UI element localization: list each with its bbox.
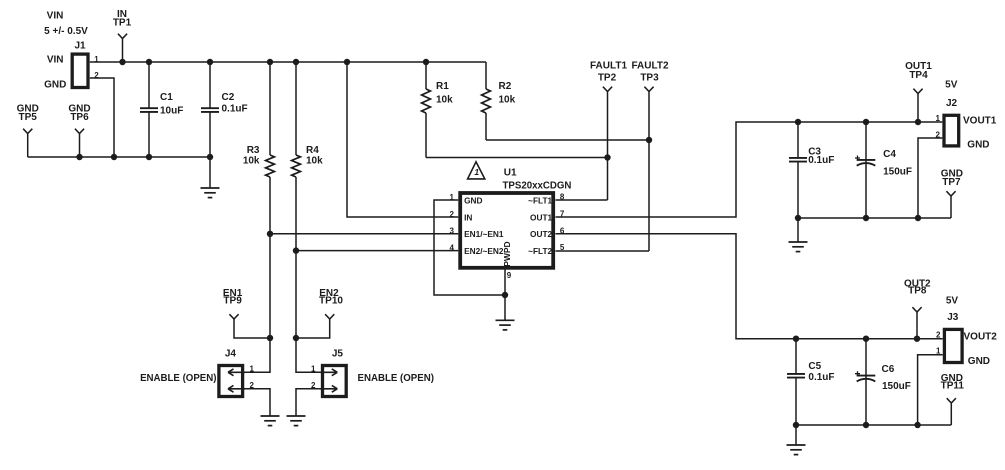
svg-text:R2: R2	[499, 81, 512, 92]
svg-text:10k: 10k	[436, 95, 453, 106]
svg-text:C6: C6	[882, 364, 895, 375]
svg-text:150uF: 150uF	[883, 167, 912, 178]
capacitor C3 0.1uF	[789, 122, 834, 221]
svg-text:ENABLE (OPEN): ENABLE (OPEN)	[358, 373, 434, 384]
capacitor C2 0.1uF	[201, 62, 248, 160]
svg-text:VOUT1: VOUT1	[963, 116, 997, 127]
wire VIN top rail	[90, 59, 486, 65]
svg-text:10k: 10k	[499, 95, 516, 106]
svg-text:FAULT2: FAULT2	[631, 61, 668, 72]
connector J2	[936, 79, 997, 150]
wire U1 pin3 to R3 net	[270, 233, 458, 235]
svg-text:150uF: 150uF	[882, 381, 911, 392]
wire R1 to TP2 net	[426, 154, 611, 160]
testpoint TP7 (GND)	[941, 168, 963, 218]
svg-text:5: 5	[560, 243, 565, 252]
svg-text:J3: J3	[947, 312, 959, 323]
testpoint TP4 (OUT1)	[905, 61, 932, 122]
svg-text:1: 1	[936, 114, 941, 123]
ground below J5	[287, 416, 306, 426]
wire GND rail (input)	[28, 156, 210, 158]
connector J5	[311, 348, 346, 396]
svg-text:10k: 10k	[306, 155, 323, 166]
ground below U1 pin9	[496, 320, 515, 330]
svg-text:VIN: VIN	[47, 11, 64, 22]
svg-text:OUT2: OUT2	[530, 229, 553, 239]
connector J4	[219, 348, 255, 396]
svg-text:IN: IN	[464, 212, 472, 222]
svg-text:TP5: TP5	[19, 112, 38, 123]
svg-text:8: 8	[560, 193, 565, 202]
svg-text:0.1uF: 0.1uF	[808, 372, 834, 383]
svg-text:0.1uF: 0.1uF	[808, 155, 834, 166]
ground below C5	[787, 425, 806, 455]
wire J3 pin1 to gnd rail	[914, 355, 942, 428]
svg-text:TP7: TP7	[942, 177, 961, 188]
svg-text:5 +/- 0.5V: 5 +/- 0.5V	[44, 26, 88, 37]
svg-text:TP1: TP1	[113, 17, 132, 28]
testpoint TP8 (OUT2)	[904, 279, 931, 339]
svg-text:~FLT2: ~FLT2	[528, 246, 552, 256]
wire J5 pin1	[296, 371, 321, 373]
testpoint TP11 (GND)	[941, 373, 965, 425]
resistor R3 10k	[243, 62, 275, 372]
testpoint TP3 (FAULT2)	[631, 61, 668, 251]
capacitor C1 10uF	[140, 62, 183, 160]
svg-text:GND: GND	[44, 79, 66, 90]
svg-text:ENABLE (OPEN): ENABLE (OPEN)	[140, 373, 216, 384]
testpoint TP6 (GND)	[68, 103, 90, 160]
svg-text:EN2/~EN2: EN2/~EN2	[464, 246, 504, 256]
svg-text:OUT1: OUT1	[530, 212, 553, 222]
svg-text:R3: R3	[247, 145, 260, 156]
label ENABLE(OPEN) right	[358, 373, 434, 384]
wire U1 pin7 OUT1 net	[556, 119, 943, 217]
svg-text:FAULT1: FAULT1	[590, 61, 627, 72]
wire R2 to TP3 net	[486, 137, 652, 143]
wire OUT2 gnd rail	[796, 424, 951, 426]
svg-text:2: 2	[936, 330, 941, 339]
wire J4 pin2 to gnd	[244, 389, 270, 416]
wire TP2 to U1 pin8	[556, 199, 608, 201]
svg-text:PWPD: PWPD	[502, 241, 512, 267]
svg-text:J5: J5	[332, 348, 344, 359]
svg-text:C5: C5	[808, 361, 821, 372]
wire TP3 to U1 pin5	[556, 250, 650, 252]
svg-text:9: 9	[507, 271, 512, 280]
resistor R1 10k	[422, 62, 454, 158]
svg-text:C1: C1	[160, 92, 173, 103]
wire U1 pin4 to R4 net	[296, 250, 458, 252]
note triangle 1	[468, 162, 485, 179]
svg-text:U1: U1	[504, 168, 517, 179]
svg-text:J1: J1	[74, 41, 86, 52]
label ENABLE(OPEN) left	[140, 373, 216, 384]
wire U1 pin1 to pin9 gnd	[434, 200, 505, 295]
wire U1 pin6 OUT2 net	[556, 234, 943, 342]
svg-text:VOUT2: VOUT2	[964, 332, 998, 343]
svg-text:GND: GND	[464, 195, 482, 205]
capacitor C4 150uF	[855, 122, 912, 221]
wire J2 pin2 to gnd rail	[915, 138, 943, 221]
connector J1	[44, 41, 99, 91]
wire IN net to U1 pin2	[347, 62, 458, 217]
svg-text:5V: 5V	[946, 295, 959, 306]
node VIN label	[44, 11, 88, 38]
svg-text:TP4: TP4	[909, 70, 928, 81]
svg-text:TP6: TP6	[70, 112, 89, 123]
svg-text:J4: J4	[225, 348, 237, 359]
ground below C2	[201, 157, 220, 198]
connector J3	[936, 295, 997, 367]
svg-text:TP11: TP11	[941, 381, 965, 392]
svg-text:GND: GND	[967, 140, 989, 151]
ground below J4	[261, 416, 280, 426]
resistor R2 10k	[482, 62, 516, 140]
svg-text:R1: R1	[436, 81, 449, 92]
op-amp U1 TPS20xxCDGN	[449, 168, 571, 281]
svg-text:5V: 5V	[945, 79, 958, 90]
testpoint TP10 (EN2)	[296, 288, 343, 338]
wire J4 pin1	[244, 371, 270, 373]
testpoint TP1 (IN)	[113, 9, 132, 65]
svg-text:~FLT1: ~FLT1	[528, 195, 552, 205]
svg-text:C4: C4	[883, 149, 896, 160]
svg-text:C2: C2	[222, 92, 235, 103]
svg-text:TP3: TP3	[640, 73, 659, 84]
svg-text:TPS20xxCDGN: TPS20xxCDGN	[503, 181, 572, 192]
svg-text:VIN: VIN	[47, 54, 64, 65]
svg-text:R4: R4	[306, 145, 319, 156]
wire J5 pin2 to gnd	[296, 389, 321, 416]
wire OUT1 gnd rail	[797, 217, 951, 219]
svg-text:0.1uF: 0.1uF	[222, 103, 248, 114]
resistor R4 10k	[292, 62, 324, 372]
svg-text:1: 1	[474, 167, 479, 177]
testpoint TP5 (GND)	[17, 103, 39, 157]
svg-text:TP9: TP9	[223, 296, 242, 307]
svg-text:EN1/~EN1: EN1/~EN1	[464, 229, 504, 239]
svg-text:TP2: TP2	[598, 73, 617, 84]
svg-text:TP10: TP10	[319, 296, 343, 307]
testpoint TP2 (FAULT1)	[590, 61, 627, 200]
svg-text:TP8: TP8	[908, 286, 927, 297]
svg-text:GND: GND	[968, 356, 990, 367]
capacitor C6 150uF	[855, 339, 911, 428]
capacitor C5 0.1uF	[787, 339, 835, 428]
svg-text:J2: J2	[946, 98, 958, 109]
svg-text:10uF: 10uF	[160, 106, 183, 117]
ground below C3	[789, 218, 808, 252]
wire U1 pin9 + pin9 stub	[502, 270, 508, 321]
svg-text:10k: 10k	[243, 155, 260, 166]
testpoint TP9 (EN1)	[223, 288, 270, 338]
wire J1 pin2 to GND rail	[90, 78, 117, 160]
